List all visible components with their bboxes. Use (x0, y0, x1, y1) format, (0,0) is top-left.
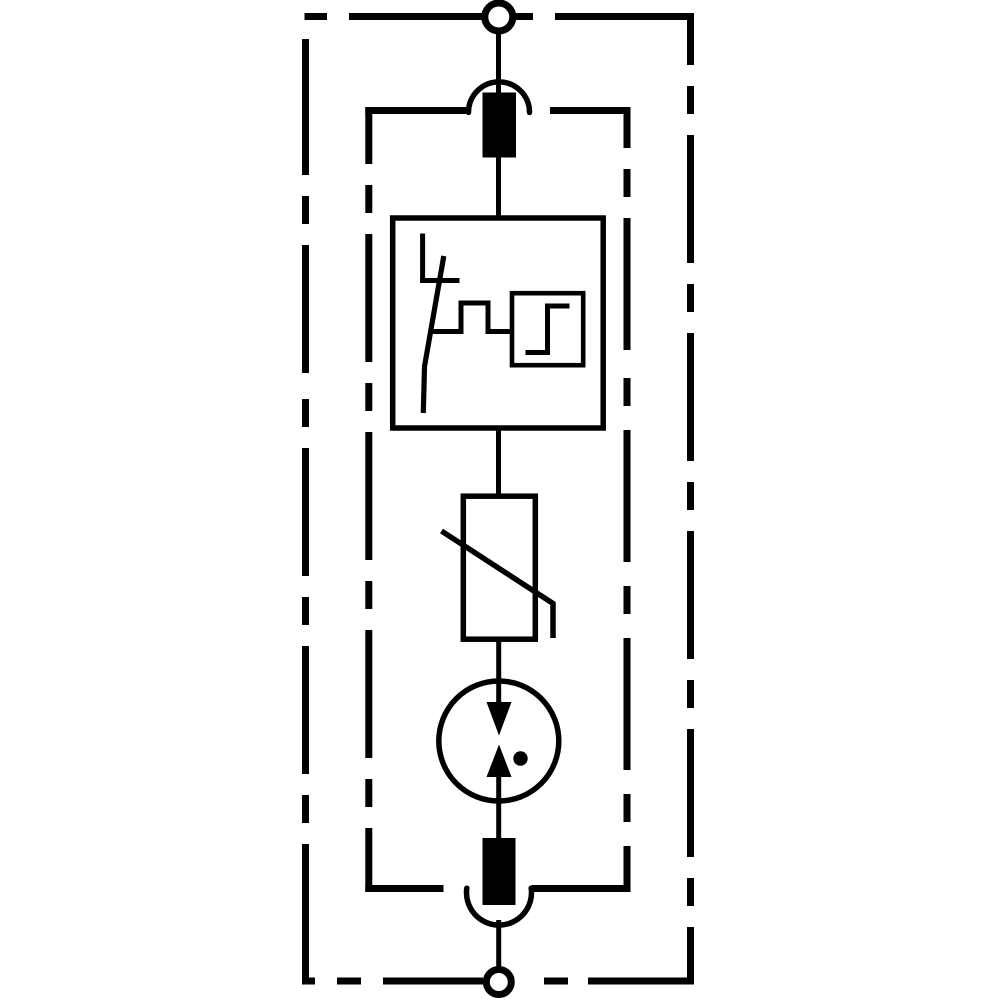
outer dashed enclosure top edge (305, 13, 695, 20)
wire: bottom plug contact to bottom terminal (496, 920, 501, 967)
spark gap gas-filled indicator dot (513, 751, 527, 765)
inner dashed module frame bottom edge (365, 885, 630, 892)
plug-in contact (top) pin (483, 93, 517, 158)
outer dashed enclosure left edge (302, 39, 309, 985)
disconnector contact bar (420, 278, 460, 283)
trigger unit box (512, 293, 583, 365)
wire: varistor to spark gap (496, 639, 501, 712)
plug-in contact (bottom) pin (483, 838, 516, 905)
outer dashed enclosure bottom edge (302, 978, 694, 985)
spark gap upper electrode arrow (487, 702, 512, 736)
disconnector switch blade (423, 256, 444, 413)
wire: disconnector to varistor (496, 427, 501, 497)
inner dashed module frame right edge (624, 107, 631, 892)
wire: top terminal to plug contact (496, 31, 501, 95)
inner dashed module frame left edge (365, 107, 372, 892)
inner dashed module frame top edge (365, 107, 630, 114)
terminal X2 (bottom) (486, 970, 511, 995)
terminal X1 (top) (485, 3, 513, 31)
spark gap circle (GDT) (439, 681, 559, 801)
wire: plug contact to disconnector (496, 157, 501, 219)
wire: spark gap to bottom plug contact (496, 772, 501, 840)
trigger step symbol (526, 306, 570, 353)
thermal disconnector box (393, 218, 604, 428)
varistor diagonal stroke (442, 531, 554, 638)
disconnector trip linkage (step wave) (433, 303, 511, 332)
plug-in contact (top) arc (469, 82, 530, 113)
outer dashed enclosure right edge (687, 13, 694, 985)
varistor body (463, 496, 535, 639)
spark gap lower electrode arrow (487, 745, 512, 778)
disconnector fixed contact (420, 234, 425, 282)
plug-in contact (bottom) arc (467, 888, 532, 925)
